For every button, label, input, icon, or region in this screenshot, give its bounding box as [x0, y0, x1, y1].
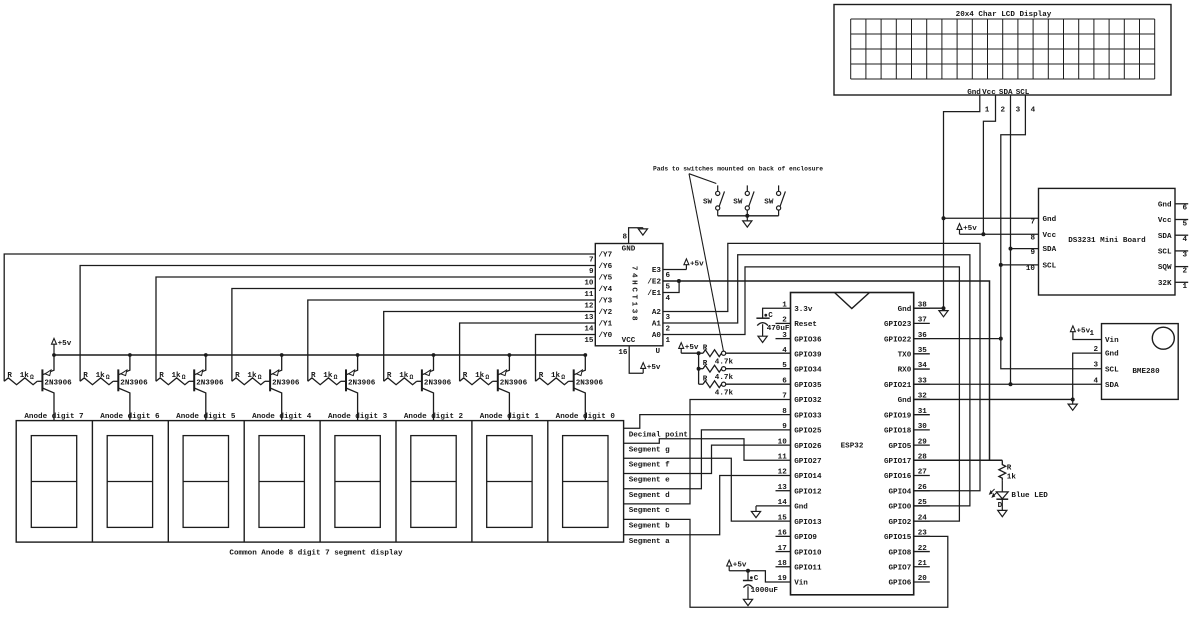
svg-text:GPIO22: GPIO22 [884, 336, 912, 344]
svg-text:SW: SW [764, 199, 774, 207]
svg-text:Ω: Ω [182, 374, 186, 381]
svg-text:1k: 1k [20, 372, 30, 380]
svg-text:2: 2 [1001, 106, 1006, 114]
svg-text:GPIO21: GPIO21 [884, 382, 912, 390]
svg-text:74HCT138: 74HCT138 [630, 266, 638, 323]
svg-text:2: 2 [1183, 267, 1188, 275]
svg-text:Anode digit 1: Anode digit 1 [480, 413, 540, 421]
svg-text:Anode digit 3: Anode digit 3 [328, 413, 388, 421]
svg-text:R: R [703, 360, 708, 368]
svg-text:GPIO7: GPIO7 [889, 564, 912, 572]
svg-text:R: R [7, 372, 12, 380]
svg-text:Gnd: Gnd [1043, 216, 1057, 224]
svg-text:7: 7 [589, 256, 594, 264]
svg-text:R: R [539, 372, 544, 380]
svg-text:6: 6 [1183, 205, 1188, 213]
svg-text:1k: 1k [96, 372, 106, 380]
svg-text:1k: 1k [1007, 473, 1017, 481]
svg-text:4.7k: 4.7k [715, 359, 734, 367]
svg-text:+5v: +5v [647, 364, 661, 372]
svg-text:Vcc: Vcc [1158, 217, 1172, 225]
svg-text:BME280: BME280 [1132, 368, 1160, 376]
svg-text:3: 3 [1016, 106, 1021, 114]
svg-text:GPIO33: GPIO33 [794, 412, 822, 420]
svg-text:VCC: VCC [622, 337, 636, 345]
svg-text:Gnd: Gnd [794, 504, 808, 512]
svg-text:5: 5 [666, 283, 671, 291]
svg-text:SCL: SCL [1016, 89, 1030, 97]
svg-text:2N3906: 2N3906 [120, 379, 148, 387]
svg-text:3: 3 [666, 314, 671, 322]
svg-text:2N3906: 2N3906 [424, 379, 452, 387]
svg-text:ESP32: ESP32 [841, 442, 864, 450]
svg-text:/Y5: /Y5 [599, 275, 613, 283]
svg-text:+5v: +5v [690, 260, 704, 268]
svg-text:7: 7 [1030, 219, 1035, 227]
svg-text:10: 10 [1026, 265, 1036, 273]
svg-text:/Y6: /Y6 [599, 263, 613, 271]
svg-text:SCL: SCL [1105, 366, 1119, 374]
svg-text:Anode digit 7: Anode digit 7 [24, 413, 84, 421]
svg-text:Ω: Ω [561, 374, 565, 381]
svg-text:GPIO15: GPIO15 [884, 534, 912, 542]
svg-text:/Y0: /Y0 [599, 332, 613, 340]
svg-text:4: 4 [1183, 236, 1188, 244]
svg-text:Segment d: Segment d [629, 492, 670, 500]
svg-text:13: 13 [584, 314, 594, 322]
svg-text:12: 12 [584, 302, 594, 310]
svg-text:Anode digit 6: Anode digit 6 [100, 413, 160, 421]
svg-text:/Y2: /Y2 [599, 309, 613, 317]
svg-text:9: 9 [589, 268, 594, 276]
svg-text:1k: 1k [323, 372, 333, 380]
svg-text:+5v: +5v [685, 344, 699, 352]
svg-text:9: 9 [1030, 249, 1035, 257]
svg-text:GPIO13: GPIO13 [794, 519, 822, 527]
svg-text:SW: SW [703, 199, 713, 207]
svg-text:SDA: SDA [1158, 233, 1172, 241]
svg-text:R: R [703, 345, 708, 353]
svg-text:GPIO26: GPIO26 [794, 443, 822, 451]
svg-text:14: 14 [584, 325, 594, 333]
svg-text:/E1: /E1 [647, 290, 661, 298]
svg-text:20x4 Char LCD Display: 20x4 Char LCD Display [956, 11, 1052, 19]
svg-text:SW: SW [733, 199, 743, 207]
svg-text:GPIO32: GPIO32 [794, 397, 822, 405]
svg-text:Ω: Ω [30, 374, 34, 381]
svg-text:GND: GND [622, 246, 636, 254]
svg-text:4: 4 [1031, 106, 1036, 114]
svg-text:3: 3 [1094, 362, 1099, 370]
svg-text:1k: 1k [247, 372, 257, 380]
svg-text:GPIO0: GPIO0 [889, 504, 912, 512]
svg-text:GPIO25: GPIO25 [794, 428, 822, 436]
svg-text:SCL: SCL [1043, 263, 1057, 271]
svg-text:E3: E3 [652, 267, 662, 275]
svg-text:16: 16 [618, 349, 628, 357]
svg-text:GPIO34: GPIO34 [794, 367, 822, 375]
svg-text:1k: 1k [399, 372, 409, 380]
svg-text:SDA: SDA [1043, 246, 1057, 254]
svg-text:Anode digit 5: Anode digit 5 [176, 413, 236, 421]
svg-text:R: R [703, 376, 708, 384]
svg-text:Segment c: Segment c [629, 507, 670, 515]
svg-text:/Y7: /Y7 [599, 252, 613, 260]
svg-text:1: 1 [666, 337, 671, 345]
svg-text:1000uF: 1000uF [751, 587, 779, 595]
svg-text:R: R [83, 372, 88, 380]
svg-text:SDA: SDA [1105, 382, 1119, 390]
svg-text:2N3906: 2N3906 [196, 379, 224, 387]
svg-text:2N3906: 2N3906 [576, 379, 604, 387]
svg-text:Anode digit 2: Anode digit 2 [404, 413, 464, 421]
svg-text:GPIO12: GPIO12 [794, 488, 822, 496]
svg-text:2N3906: 2N3906 [272, 379, 300, 387]
svg-text:3.3v: 3.3v [794, 306, 813, 314]
svg-text:/Y1: /Y1 [599, 321, 613, 329]
svg-text:RX0: RX0 [898, 367, 912, 375]
svg-text:Segment a: Segment a [629, 538, 670, 546]
svg-text:1k: 1k [551, 372, 561, 380]
svg-text:Gnd: Gnd [1158, 201, 1172, 209]
svg-text:R: R [159, 372, 164, 380]
svg-text:Anode digit 0: Anode digit 0 [556, 413, 616, 421]
svg-text:8: 8 [622, 234, 627, 242]
svg-text:Gnd: Gnd [898, 397, 912, 405]
svg-text:1k: 1k [172, 372, 182, 380]
svg-text:/Y4: /Y4 [599, 286, 613, 294]
svg-text:+5v: +5v [963, 225, 977, 233]
svg-text:SQW: SQW [1158, 264, 1172, 272]
svg-text:4.7k: 4.7k [715, 390, 734, 398]
svg-text:15: 15 [584, 337, 594, 345]
svg-text:4.7k: 4.7k [715, 374, 734, 382]
svg-text:1: 1 [1090, 330, 1095, 338]
svg-text:5: 5 [1183, 220, 1188, 228]
svg-text:Gnd: Gnd [898, 306, 912, 314]
svg-text:GPIO36: GPIO36 [794, 336, 822, 344]
svg-text:TX0: TX0 [898, 352, 912, 360]
svg-text:11: 11 [584, 291, 594, 299]
svg-text:C: C [754, 575, 759, 583]
svg-text:SCL: SCL [1158, 249, 1172, 257]
svg-text:GPIO39: GPIO39 [794, 352, 822, 360]
svg-text:Segment f: Segment f [629, 461, 670, 469]
svg-text:DS3231 Mini Board: DS3231 Mini Board [1068, 237, 1146, 245]
svg-text:GPIO4: GPIO4 [889, 488, 912, 496]
svg-text:10: 10 [584, 279, 594, 287]
svg-text:Blue LED: Blue LED [1011, 492, 1048, 500]
svg-text:R: R [463, 372, 468, 380]
svg-text:Pads to switches mounted on ba: Pads to switches mounted on back of encl… [653, 165, 823, 172]
svg-text:Vin: Vin [1105, 337, 1119, 345]
svg-text:Gnd: Gnd [1105, 351, 1119, 359]
svg-text:Anode digit 4: Anode digit 4 [252, 413, 312, 421]
svg-text:2N3906: 2N3906 [348, 379, 376, 387]
svg-text:GPIO5: GPIO5 [889, 443, 912, 451]
svg-text:R: R [235, 372, 240, 380]
svg-text:U: U [656, 348, 661, 356]
svg-text:1: 1 [985, 106, 990, 114]
svg-text:A2: A2 [652, 309, 662, 317]
svg-text:+5v: +5v [1077, 327, 1091, 335]
svg-text:Common Anode 8 digit 7 segment: Common Anode 8 digit 7 segment display [229, 550, 403, 558]
svg-text:GPIO10: GPIO10 [794, 549, 822, 557]
svg-text:Vcc: Vcc [982, 89, 996, 97]
svg-text:GPIO6: GPIO6 [889, 580, 912, 588]
svg-text:R: R [1007, 465, 1012, 473]
svg-text:8: 8 [1030, 234, 1035, 242]
svg-text:2: 2 [666, 325, 671, 333]
svg-text:GPIO27: GPIO27 [794, 458, 822, 466]
svg-text:Reset: Reset [794, 321, 817, 329]
svg-text:1k: 1k [475, 372, 485, 380]
svg-text:2N3906: 2N3906 [44, 379, 72, 387]
svg-text:2N3906: 2N3906 [500, 379, 528, 387]
svg-text:3: 3 [1183, 252, 1188, 260]
svg-text:Vcc: Vcc [1043, 232, 1057, 240]
svg-text:GPIO8: GPIO8 [889, 549, 912, 557]
svg-text:6: 6 [666, 272, 671, 280]
svg-text:470uF: 470uF [767, 325, 790, 333]
svg-text:GPIO2: GPIO2 [889, 519, 912, 527]
svg-text:GPIO19: GPIO19 [884, 412, 912, 420]
svg-text:GPIO16: GPIO16 [884, 473, 912, 481]
svg-text:32K: 32K [1158, 280, 1172, 288]
svg-text:R: R [311, 372, 316, 380]
svg-text:GPIO11: GPIO11 [794, 564, 822, 572]
svg-text:Segment b: Segment b [629, 523, 670, 531]
svg-text:GPIO35: GPIO35 [794, 382, 822, 390]
svg-text:4: 4 [666, 295, 671, 303]
svg-text:A0: A0 [652, 332, 662, 340]
svg-text:GPIO23: GPIO23 [884, 321, 912, 329]
svg-text:Ω: Ω [106, 374, 110, 381]
svg-text:R: R [387, 372, 392, 380]
svg-text:/E2: /E2 [647, 279, 661, 287]
svg-text:GPIO17: GPIO17 [884, 458, 912, 466]
svg-text:A1: A1 [652, 321, 662, 329]
svg-text:GPIO9: GPIO9 [794, 534, 817, 542]
svg-text:GPIO18: GPIO18 [884, 428, 912, 436]
svg-text:GPIO14: GPIO14 [794, 473, 822, 481]
svg-text:Ω: Ω [258, 374, 262, 381]
svg-text:Ω: Ω [334, 374, 338, 381]
svg-text:C: C [768, 312, 773, 320]
svg-text:+5v: +5v [733, 562, 747, 570]
svg-text:+5v: +5v [58, 340, 72, 348]
svg-text:Vin: Vin [794, 580, 808, 588]
svg-text:Segment g: Segment g [629, 446, 670, 454]
svg-text:1: 1 [1183, 283, 1188, 291]
svg-text:Ω: Ω [410, 374, 414, 381]
svg-text:Segment e: Segment e [629, 477, 670, 485]
svg-text:/Y3: /Y3 [599, 298, 613, 306]
svg-text:Ω: Ω [485, 374, 489, 381]
